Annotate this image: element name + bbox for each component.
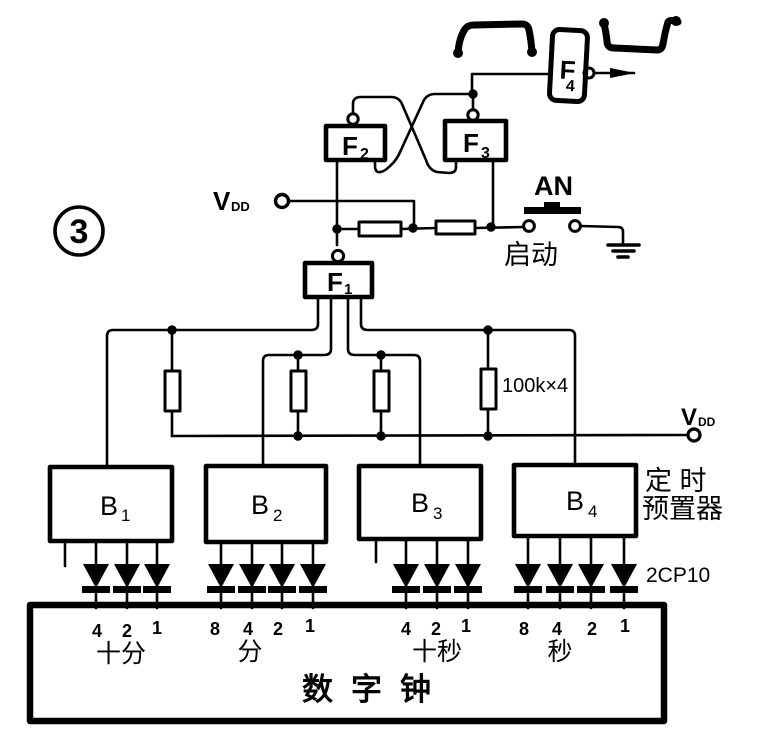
resistor R2 (pullup) bbox=[291, 355, 306, 436]
bit labels group4 bbox=[519, 616, 630, 639]
svg-text:B: B bbox=[100, 491, 118, 521]
VDD label (rail) bbox=[681, 404, 716, 431]
wire cross-coupling F2 to F3 input bbox=[353, 97, 456, 173]
svg-text:4: 4 bbox=[401, 619, 411, 639]
svg-text:V: V bbox=[213, 186, 231, 216]
bit labels group2 bbox=[210, 616, 315, 639]
wire cross-coupling F3 to F2 input bbox=[375, 94, 469, 172]
node: F3 output junction bbox=[469, 90, 477, 98]
svg-text:F: F bbox=[327, 267, 343, 297]
resistor R4 (pullup) bbox=[481, 330, 496, 436]
svg-text:1: 1 bbox=[344, 281, 352, 298]
svg-text:B: B bbox=[566, 486, 584, 516]
diode D8 (B3 bit4) bbox=[392, 539, 420, 608]
diode D14 (B4 bit1) bbox=[610, 536, 638, 608]
node row2 R3 bbox=[377, 351, 385, 359]
svg-text:启动: 启动 bbox=[504, 240, 558, 270]
svg-text:1: 1 bbox=[620, 616, 630, 636]
svg-text:预置器: 预置器 bbox=[642, 494, 723, 524]
node resistor row right bbox=[487, 223, 495, 231]
diode D7 (B2 bit1) bbox=[299, 542, 327, 608]
wire F1 pin3 to row2-right bbox=[348, 297, 420, 466]
node row1 R4 bbox=[484, 326, 492, 334]
svg-text:2: 2 bbox=[587, 619, 597, 639]
svg-text:8: 8 bbox=[210, 619, 220, 639]
resistor R1 (pullup) bbox=[165, 330, 180, 436]
svg-text:1: 1 bbox=[152, 618, 162, 638]
F3 output bubble bbox=[468, 110, 478, 120]
svg-text:2CP10: 2CP10 bbox=[646, 564, 710, 587]
gate F2 bbox=[326, 126, 385, 163]
svg-text:定 时: 定 时 bbox=[645, 466, 707, 496]
pushbutton AN bbox=[524, 202, 581, 231]
svg-text:AN: AN bbox=[534, 171, 573, 201]
wire resistor row bbox=[337, 227, 524, 229]
resistor (row, right) bbox=[436, 221, 475, 234]
svg-text:8: 8 bbox=[519, 619, 529, 639]
node rail R3 bbox=[377, 432, 385, 440]
block B3 bbox=[359, 466, 481, 539]
wire F1 pin1 to row1-left bbox=[107, 297, 318, 467]
svg-text:2: 2 bbox=[360, 146, 369, 163]
VDD terminal (left) bbox=[276, 195, 289, 208]
node row2 R2 bbox=[294, 351, 302, 359]
svg-text:3: 3 bbox=[70, 213, 89, 251]
diode D1 (B1 bit4) bbox=[82, 541, 110, 608]
diode D12 (B4 bit4) bbox=[546, 536, 574, 608]
svg-text:1: 1 bbox=[305, 616, 315, 636]
node resistor row left bbox=[333, 225, 341, 233]
resistor R3 (pullup) bbox=[374, 355, 389, 436]
node resistor row mid bbox=[409, 224, 417, 232]
resistor (row, left) bbox=[359, 222, 401, 236]
wire switch to ground bbox=[581, 226, 623, 243]
VDD rail bbox=[172, 435, 688, 436]
diode D9 (B3 bit2) bbox=[423, 539, 451, 608]
waveform: input pulse bbox=[454, 24, 536, 57]
diode D3 (B1 bit1) bbox=[143, 541, 171, 608]
svg-text:4: 4 bbox=[552, 619, 562, 639]
diode D4 (B2 bit8) bbox=[207, 542, 235, 608]
block B4 bbox=[514, 465, 636, 536]
svg-text:4: 4 bbox=[565, 78, 575, 95]
svg-text:2: 2 bbox=[273, 506, 282, 525]
waveform: output pulse bbox=[600, 17, 680, 50]
svg-text:1: 1 bbox=[121, 506, 130, 525]
svg-text:十分: 十分 bbox=[96, 640, 146, 668]
wire junction to F3 bubble bbox=[472, 94, 475, 110]
node rail R2 bbox=[294, 432, 302, 440]
svg-text:100k×4: 100k×4 bbox=[502, 375, 568, 397]
stub pin under B3 bbox=[375, 539, 378, 562]
wire F1 pin2 to row2-left bbox=[263, 297, 331, 466]
svg-text:3: 3 bbox=[481, 145, 490, 162]
svg-text:秒: 秒 bbox=[547, 638, 572, 666]
gate F1 bbox=[305, 250, 372, 298]
svg-text:B: B bbox=[411, 488, 429, 518]
F4 output bubble bbox=[584, 68, 594, 78]
svg-text:F: F bbox=[463, 128, 479, 158]
stub pin under B1 bbox=[64, 541, 67, 566]
svg-text:4: 4 bbox=[92, 621, 102, 641]
svg-text:分: 分 bbox=[237, 638, 262, 666]
gate F4 bbox=[549, 29, 588, 102]
ground bbox=[608, 245, 639, 257]
VDD label (left) bbox=[213, 186, 250, 216]
svg-text:数字钟: 数字钟 bbox=[302, 672, 449, 707]
diode D10 (B3 bit1) bbox=[454, 539, 482, 608]
digital clock box bbox=[30, 605, 664, 721]
svg-text:3: 3 bbox=[433, 504, 442, 523]
wire VDD feed bbox=[289, 201, 414, 225]
svg-text:DD: DD bbox=[698, 415, 716, 429]
svg-text:1: 1 bbox=[461, 616, 471, 636]
svg-text:F: F bbox=[342, 131, 358, 161]
block B2 bbox=[206, 466, 326, 542]
block B1 bbox=[50, 467, 172, 541]
output arrow bbox=[594, 68, 635, 78]
svg-text:4: 4 bbox=[588, 502, 597, 521]
bit labels group3 bbox=[401, 616, 471, 639]
VDD terminal (rail) bbox=[688, 429, 700, 441]
diode D13 (B4 bit2) bbox=[577, 536, 605, 608]
label timing presetter bbox=[642, 466, 723, 524]
svg-text:4: 4 bbox=[243, 619, 253, 639]
node row1 R1 bbox=[168, 326, 176, 334]
wire F1 pin4 to row1-right bbox=[361, 297, 575, 465]
wire F3 bottom pin down bbox=[492, 160, 495, 224]
svg-text:2: 2 bbox=[122, 621, 132, 641]
svg-text:2: 2 bbox=[431, 619, 441, 639]
bit labels group1 bbox=[92, 618, 162, 641]
diode D11 (B4 bit8) bbox=[514, 536, 542, 608]
figure number 3 bbox=[55, 207, 103, 255]
diode D2 (B1 bit2) bbox=[113, 541, 141, 608]
diode D5 (B2 bit4) bbox=[238, 542, 266, 608]
svg-text:DD: DD bbox=[231, 199, 250, 214]
F2 output bubble bbox=[348, 114, 358, 124]
gate F3 bbox=[445, 121, 506, 162]
diode D6 (B2 bit2) bbox=[268, 542, 296, 608]
wire F2 bottom pin down bbox=[336, 160, 339, 245]
node rail R4 bbox=[484, 432, 492, 440]
svg-text:B: B bbox=[251, 490, 269, 520]
wire F4 input bbox=[472, 74, 551, 90]
svg-text:十秒: 十秒 bbox=[412, 638, 462, 666]
svg-text:V: V bbox=[681, 404, 697, 431]
svg-text:2: 2 bbox=[273, 619, 283, 639]
